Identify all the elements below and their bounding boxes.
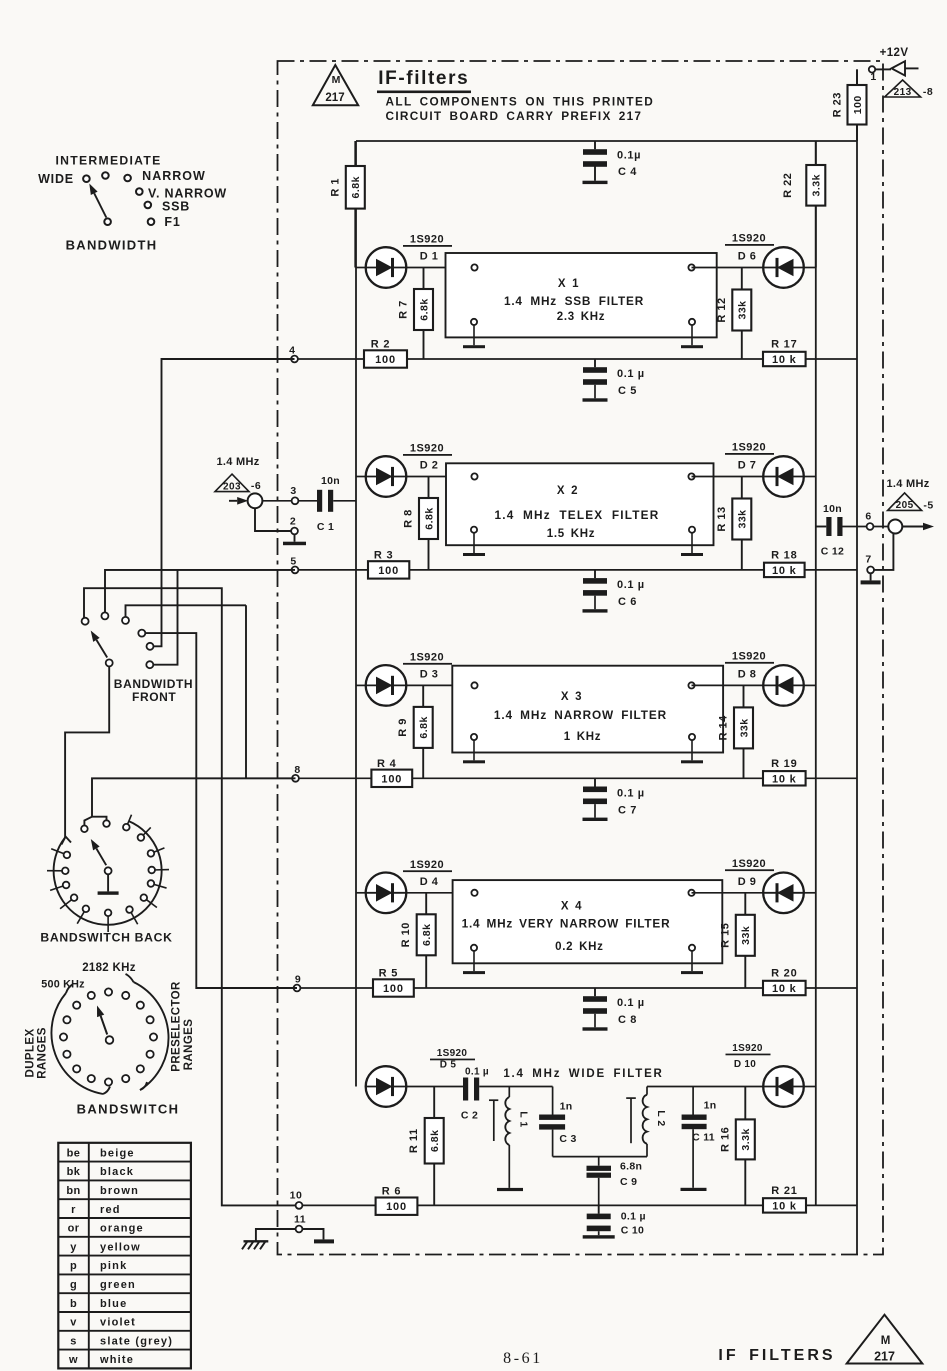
svg-text:BANDWIDTH: BANDWIDTH bbox=[66, 238, 158, 253]
svg-text:white: white bbox=[99, 1354, 134, 1366]
svg-text:SSB: SSB bbox=[162, 200, 190, 214]
svg-text:C 1: C 1 bbox=[317, 521, 334, 533]
wire pin 8 / contact 3 / bandswitch back strap bbox=[245, 605, 247, 778]
svg-text:BANDWIDTH: BANDWIDTH bbox=[114, 677, 193, 691]
node: printed circuit board 217 outline bbox=[278, 61, 884, 1255]
capacitor C 6 0.1u bbox=[583, 570, 645, 609]
svg-text:R 3: R 3 bbox=[374, 549, 394, 561]
wire D10 to output rail bbox=[804, 1086, 816, 1088]
svg-text:8: 8 bbox=[294, 764, 300, 776]
svg-text:M: M bbox=[332, 74, 341, 86]
svg-text:10 k: 10 k bbox=[772, 565, 797, 577]
svg-text:1.4 MHz NARROW FILTER: 1.4 MHz NARROW FILTER bbox=[494, 708, 667, 722]
svg-text:6.8k: 6.8k bbox=[423, 507, 435, 529]
capacitor C 7 0.1u bbox=[583, 778, 645, 817]
svg-text:IF FILTERS: IF FILTERS bbox=[718, 1347, 835, 1364]
svg-text:be: be bbox=[67, 1147, 81, 1159]
wire C12 to pin 6 bbox=[843, 526, 889, 528]
svg-text:C 6: C 6 bbox=[618, 596, 637, 608]
svg-text:RANGES: RANGES bbox=[183, 1019, 195, 1071]
ground (C10) bbox=[583, 1235, 615, 1238]
resistor R 12 33k bbox=[741, 268, 743, 360]
svg-text:p: p bbox=[70, 1260, 77, 1272]
svg-text:D 2: D 2 bbox=[420, 460, 439, 472]
svg-text:X 4: X 4 bbox=[561, 901, 582, 913]
svg-text:blue: blue bbox=[100, 1298, 127, 1310]
svg-text:11: 11 bbox=[294, 1214, 306, 1226]
wire diode to filter input bbox=[406, 892, 474, 894]
wire strap to back contacts A B bbox=[84, 817, 92, 826]
wire diode to output rail bbox=[804, 476, 816, 478]
svg-text:C 3: C 3 bbox=[559, 1133, 576, 1145]
svg-text:9: 9 bbox=[295, 974, 301, 986]
resistor R6 100 bbox=[376, 1198, 418, 1215]
svg-text:0.1 µ: 0.1 µ bbox=[465, 1067, 489, 1078]
svg-text:F1: F1 bbox=[164, 215, 180, 229]
svg-text:6.8k: 6.8k bbox=[421, 924, 433, 946]
wire anode D 3 bbox=[356, 684, 366, 686]
node pin 4 bbox=[289, 345, 298, 363]
svg-text:red: red bbox=[100, 1204, 121, 1216]
wire pin 10 to bandwidth front contact 1 bbox=[84, 588, 299, 1205]
svg-text:M: M bbox=[881, 1335, 891, 1347]
svg-text:C 8: C 8 bbox=[618, 1014, 637, 1026]
svg-text:R 17: R 17 bbox=[771, 339, 797, 351]
switch S3 BANDSWITCH bbox=[25, 962, 196, 1117]
svg-text:WIDE: WIDE bbox=[38, 172, 74, 186]
svg-text:R 23: R 23 bbox=[832, 92, 844, 117]
svg-text:C 5: C 5 bbox=[618, 385, 637, 397]
svg-text:6.8k: 6.8k bbox=[429, 1130, 441, 1152]
svg-text:1S920: 1S920 bbox=[410, 859, 444, 871]
switch S2 BANDSWITCH BACK bbox=[40, 815, 172, 945]
svg-text:RANGES: RANGES bbox=[37, 1027, 49, 1079]
resistor R 20 10k bbox=[763, 981, 806, 995]
svg-text:R 14: R 14 bbox=[718, 715, 730, 741]
svg-text:R 19: R 19 bbox=[771, 758, 797, 770]
connector 1.4MHz input from 203-6 bbox=[215, 456, 262, 508]
svg-text:R 18: R 18 bbox=[771, 549, 797, 561]
svg-text:1S920: 1S920 bbox=[732, 233, 766, 245]
svg-text:R 11: R 11 bbox=[408, 1128, 420, 1153]
inductor L2 bbox=[626, 1087, 667, 1157]
wire stage rail pin 8 bbox=[92, 777, 857, 779]
svg-text:1S920: 1S920 bbox=[410, 234, 444, 246]
svg-text:DUPLEX: DUPLEX bbox=[25, 1028, 37, 1077]
wire diode output rail (vertical) bbox=[815, 141, 817, 1205]
node pin 3 bbox=[290, 485, 298, 504]
diode D5 1S920 bbox=[366, 1048, 475, 1107]
svg-text:D 4: D 4 bbox=[420, 876, 439, 888]
svg-text:1.4 MHz WIDE FILTER: 1.4 MHz WIDE FILTER bbox=[503, 1068, 663, 1080]
svg-text:INTERMEDIATE: INTERMEDIATE bbox=[55, 154, 161, 168]
ground (C4) bbox=[583, 181, 608, 184]
wire +12V right rail to bottom bbox=[856, 69, 858, 1254]
wire diode to filter input bbox=[406, 476, 474, 478]
svg-text:violet: violet bbox=[100, 1317, 136, 1329]
ground (L1) bbox=[497, 1188, 523, 1191]
svg-text:10n: 10n bbox=[321, 475, 340, 487]
svg-text:10: 10 bbox=[290, 1190, 303, 1202]
node pin 10 bbox=[290, 1190, 303, 1209]
svg-text:10 k: 10 k bbox=[772, 773, 797, 785]
wire pin 4 to bandwidth front contact 5 bbox=[150, 359, 295, 646]
ground (C 8) bbox=[583, 1027, 608, 1030]
svg-text:C 2: C 2 bbox=[461, 1110, 478, 1122]
svg-text:D 10: D 10 bbox=[734, 1059, 756, 1070]
svg-text:D 8: D 8 bbox=[738, 668, 757, 680]
svg-text:D 1: D 1 bbox=[420, 251, 439, 263]
svg-text:1S920: 1S920 bbox=[410, 443, 444, 455]
svg-text:R 2: R 2 bbox=[371, 339, 391, 351]
svg-text:bk: bk bbox=[67, 1166, 81, 1178]
wire C2 to C3 corner bbox=[479, 1086, 552, 1088]
capacitor C 5 0.1u bbox=[583, 359, 645, 398]
resistor R23 bbox=[856, 69, 858, 141]
wire diode to output rail bbox=[804, 892, 816, 894]
capacitor C1 10n bbox=[317, 475, 340, 533]
svg-text:D 5: D 5 bbox=[440, 1060, 457, 1071]
capacitor C2 0.1u bbox=[461, 1067, 489, 1122]
ground (pin 11 right) bbox=[314, 1239, 334, 1243]
diode D10 1S920 bbox=[726, 1043, 804, 1107]
node pin 2 bbox=[290, 516, 298, 535]
diode D 6 1S920 bbox=[725, 233, 804, 288]
svg-text:L 2: L 2 bbox=[655, 1110, 667, 1126]
svg-text:0.1 µ: 0.1 µ bbox=[617, 997, 645, 1009]
svg-text:0.1µ: 0.1µ bbox=[617, 150, 641, 162]
wire bandwidth front contact 6 bbox=[150, 570, 178, 665]
table: wire colour code bbox=[58, 1143, 191, 1369]
svg-text:1.4 MHz TELEX FILTER: 1.4 MHz TELEX FILTER bbox=[495, 508, 660, 522]
svg-text:w: w bbox=[68, 1354, 78, 1366]
resistor R 2 100 bbox=[364, 350, 407, 367]
svg-text:100: 100 bbox=[383, 983, 404, 995]
node pin 1 bbox=[869, 66, 891, 83]
svg-text:R 21: R 21 bbox=[771, 1185, 797, 1197]
svg-text:R 13: R 13 bbox=[716, 506, 728, 531]
connector arrow from 213-8 bbox=[885, 61, 934, 98]
svg-text:0.1 µ: 0.1 µ bbox=[617, 368, 645, 380]
node pin 9 bbox=[294, 974, 302, 992]
wire stage rail pin 9 bbox=[196, 987, 857, 989]
svg-text:yellow: yellow bbox=[100, 1241, 141, 1253]
svg-text:D 9: D 9 bbox=[738, 876, 757, 888]
ground (filter left) bbox=[463, 760, 485, 763]
resistor R 14 33k bbox=[743, 685, 745, 778]
svg-text:D 3: D 3 bbox=[420, 668, 439, 680]
svg-text:y: y bbox=[70, 1241, 77, 1253]
svg-text:C 10: C 10 bbox=[621, 1225, 644, 1237]
node pin 11 bbox=[294, 1214, 306, 1233]
resistor R 18 10k bbox=[764, 563, 805, 577]
svg-text:6.8k: 6.8k bbox=[350, 176, 362, 198]
svg-text:1S920: 1S920 bbox=[410, 651, 444, 663]
wire anode D 1 bbox=[356, 267, 366, 269]
svg-text:1.4 MHz: 1.4 MHz bbox=[216, 456, 259, 468]
diode D 1 1S920 bbox=[366, 234, 452, 288]
svg-text:X 2: X 2 bbox=[557, 485, 578, 497]
wire stage rail pin 4 bbox=[162, 358, 858, 360]
node pin 5 bbox=[290, 555, 298, 573]
svg-text:1S920: 1S920 bbox=[437, 1048, 468, 1059]
svg-text:0.1 µ: 0.1 µ bbox=[617, 579, 645, 591]
ground (filter right) bbox=[681, 345, 703, 348]
wire filter output to diode bbox=[692, 476, 764, 478]
svg-text:1.4 MHz SSB FILTER: 1.4 MHz SSB FILTER bbox=[504, 294, 644, 308]
wire diode to output rail bbox=[804, 684, 816, 686]
svg-text:1S920: 1S920 bbox=[732, 1043, 763, 1054]
wire diode to filter input bbox=[406, 684, 474, 686]
svg-text:R 10: R 10 bbox=[400, 922, 412, 947]
wire connector to pin 3 bbox=[262, 500, 317, 502]
module symbol M 217 (footer) bbox=[847, 1315, 923, 1364]
svg-text:10 k: 10 k bbox=[772, 1200, 797, 1212]
svg-text:1n: 1n bbox=[560, 1101, 573, 1113]
svg-text:pink: pink bbox=[100, 1260, 127, 1272]
resistor R16 3.3k bbox=[744, 1087, 746, 1206]
svg-text:orange: orange bbox=[100, 1223, 144, 1235]
capacitor C11 1n bbox=[682, 1087, 717, 1188]
capacitor C3 1n bbox=[539, 1087, 577, 1157]
svg-text:NARROW: NARROW bbox=[142, 169, 206, 183]
wire diode to filter input bbox=[406, 267, 474, 269]
svg-text:5: 5 bbox=[290, 555, 296, 567]
resistor R 13 33k bbox=[741, 477, 743, 570]
svg-text:10n: 10n bbox=[823, 503, 842, 515]
svg-text:3.3k: 3.3k bbox=[740, 1128, 752, 1150]
ground (pin 7) bbox=[861, 573, 881, 584]
svg-text:b: b bbox=[70, 1298, 77, 1310]
switch BANDWIDTH position legend bbox=[38, 154, 227, 253]
svg-text:slate (grey): slate (grey) bbox=[100, 1335, 173, 1347]
wire filter output to diode bbox=[692, 267, 764, 269]
wire input rail (left vertical) bbox=[355, 141, 357, 1087]
svg-text:1.4 MHz: 1.4 MHz bbox=[886, 478, 929, 490]
svg-text:100: 100 bbox=[375, 354, 396, 366]
svg-text:C 9: C 9 bbox=[620, 1176, 637, 1188]
inductor L1 bbox=[489, 1087, 530, 1188]
node pin 8 bbox=[292, 764, 301, 782]
svg-text:R 22: R 22 bbox=[782, 173, 794, 198]
svg-text:or: or bbox=[68, 1223, 80, 1235]
svg-text:4: 4 bbox=[289, 345, 295, 357]
crystal filter X1 bbox=[446, 253, 717, 345]
title IF-filters bbox=[377, 68, 471, 93]
resistor R11 6.8k bbox=[433, 1087, 435, 1206]
svg-text:bn: bn bbox=[66, 1185, 80, 1197]
svg-text:1: 1 bbox=[870, 71, 876, 83]
svg-text:6: 6 bbox=[865, 511, 871, 523]
svg-text:X 3: X 3 bbox=[561, 691, 582, 703]
svg-text:2.3 KHz: 2.3 KHz bbox=[557, 311, 605, 323]
resistor R1 bbox=[354, 141, 356, 268]
wire filter output to diode bbox=[692, 684, 764, 686]
diode D 2 1S920 bbox=[366, 443, 452, 497]
wire pin 11 bbox=[256, 1229, 296, 1241]
ground (filter right) bbox=[681, 971, 703, 974]
connector 1.4MHz output to 205-5 bbox=[886, 478, 934, 534]
crystal filter X4 bbox=[453, 880, 723, 971]
svg-text:2: 2 bbox=[290, 516, 296, 528]
svg-text:1.4 MHz VERY NARROW FILTER: 1.4 MHz VERY NARROW FILTER bbox=[462, 917, 671, 931]
svg-text:g: g bbox=[70, 1279, 77, 1291]
svg-text:8-61: 8-61 bbox=[503, 1350, 543, 1367]
svg-text:1 KHz: 1 KHz bbox=[564, 731, 601, 743]
svg-text:33k: 33k bbox=[737, 300, 749, 319]
svg-text:217: 217 bbox=[874, 1350, 895, 1364]
svg-text:6.8n: 6.8n bbox=[620, 1161, 642, 1173]
resistor R 5 100 bbox=[373, 979, 414, 996]
capacitor C9 6.8n bbox=[587, 1157, 643, 1206]
diode D 7 1S920 bbox=[725, 442, 804, 497]
svg-text:green: green bbox=[100, 1279, 136, 1291]
svg-text:203: 203 bbox=[223, 481, 241, 492]
svg-text:R 4: R 4 bbox=[377, 758, 397, 770]
wire L2 top to D10 bbox=[647, 1086, 763, 1088]
svg-text:1.5 KHz: 1.5 KHz bbox=[547, 528, 595, 540]
svg-text:FRONT: FRONT bbox=[132, 690, 176, 704]
svg-text:PRESELECTOR: PRESELECTOR bbox=[171, 981, 183, 1072]
svg-text:C 4: C 4 bbox=[618, 166, 637, 178]
svg-text:R 16: R 16 bbox=[719, 1127, 731, 1152]
svg-text:BANDSWITCH: BANDSWITCH bbox=[77, 1102, 180, 1117]
node pin 6 bbox=[865, 511, 873, 530]
wire filter output to diode bbox=[692, 892, 764, 894]
svg-text:black: black bbox=[100, 1166, 134, 1178]
svg-text:100: 100 bbox=[381, 773, 402, 785]
svg-text:R 1: R 1 bbox=[329, 178, 341, 197]
wire anode D 4 bbox=[356, 892, 366, 894]
capacitor C4 0.1u bbox=[583, 141, 641, 181]
ground (filter right) bbox=[681, 553, 703, 556]
wire +12V top rail bbox=[356, 140, 857, 142]
svg-text:33k: 33k bbox=[738, 718, 750, 737]
svg-text:6.8k: 6.8k bbox=[418, 298, 430, 320]
svg-text:R 6: R 6 bbox=[382, 1186, 402, 1198]
resistor R 8 6.8k bbox=[428, 477, 430, 570]
resistor R 9 6.8k bbox=[422, 685, 424, 778]
svg-text:205: 205 bbox=[896, 500, 914, 511]
svg-text:1S920: 1S920 bbox=[732, 858, 766, 870]
svg-text:C 12: C 12 bbox=[821, 546, 844, 558]
svg-text:s: s bbox=[70, 1335, 77, 1347]
wire stage rail pin 10 bbox=[296, 1204, 857, 1206]
svg-text:D 6: D 6 bbox=[738, 251, 757, 263]
resistor R 4 100 bbox=[371, 770, 412, 787]
svg-text:10 k: 10 k bbox=[772, 983, 797, 995]
svg-text:IF-filters: IF-filters bbox=[378, 68, 469, 89]
svg-text:100: 100 bbox=[386, 1201, 407, 1213]
resistor R 17 10k bbox=[763, 352, 806, 366]
note: all components carry prefix 217 bbox=[386, 95, 655, 124]
resistor R22 bbox=[815, 141, 817, 268]
wire connector shield to pin 2 bbox=[255, 508, 291, 531]
svg-text:C 11: C 11 bbox=[692, 1132, 715, 1144]
wire bandwidth front wiper to bandswitch back rotor bbox=[65, 666, 109, 837]
ground (filter left) bbox=[463, 553, 485, 556]
capacitor C 8 0.1u bbox=[583, 988, 645, 1027]
wire D5 to C2 bbox=[406, 1086, 463, 1088]
resistor R 7 6.8k bbox=[423, 268, 425, 360]
wire tank bottom link bbox=[553, 1156, 647, 1158]
svg-text:BANDSWITCH BACK: BANDSWITCH BACK bbox=[40, 931, 172, 945]
svg-text:L 1: L 1 bbox=[518, 1111, 530, 1127]
svg-text:beige: beige bbox=[100, 1147, 135, 1159]
diode D 8 1S920 bbox=[725, 650, 804, 705]
svg-text:brown: brown bbox=[100, 1185, 139, 1197]
svg-text:33k: 33k bbox=[737, 509, 749, 528]
resistor R21 10k bbox=[763, 1198, 806, 1212]
capacitor C12 10n bbox=[816, 503, 844, 558]
svg-text:0.1 µ: 0.1 µ bbox=[617, 787, 645, 799]
svg-text:R 12: R 12 bbox=[716, 297, 728, 322]
module symbol M 217 (top) bbox=[313, 65, 358, 105]
ground (C 5) bbox=[583, 398, 608, 401]
wire diode to output rail bbox=[804, 267, 816, 269]
svg-text:500 KHz: 500 KHz bbox=[41, 979, 85, 991]
svg-text:-8: -8 bbox=[923, 86, 933, 98]
diode D 3 1S920 bbox=[366, 651, 452, 705]
diode D 4 1S920 bbox=[366, 859, 452, 913]
svg-text:v: v bbox=[70, 1317, 77, 1329]
svg-text:R 9: R 9 bbox=[397, 718, 409, 737]
svg-text:100: 100 bbox=[852, 95, 864, 114]
capacitor C10 0.1u bbox=[587, 1205, 646, 1236]
resistor R 3 100 bbox=[368, 561, 409, 578]
ground (chassis, hatched) bbox=[242, 1241, 268, 1249]
ground (filter left) bbox=[463, 345, 485, 348]
crystal filter X3 bbox=[452, 666, 723, 761]
svg-text:0.1 µ: 0.1 µ bbox=[621, 1211, 646, 1223]
svg-text:10 k: 10 k bbox=[772, 354, 797, 366]
svg-text:217: 217 bbox=[325, 92, 344, 104]
ground (filter left) bbox=[463, 971, 485, 974]
svg-text:D 7: D 7 bbox=[738, 460, 757, 472]
svg-text:213: 213 bbox=[894, 87, 912, 98]
svg-text:3: 3 bbox=[290, 485, 296, 497]
svg-text:-5: -5 bbox=[923, 500, 933, 512]
node pin 7 bbox=[865, 554, 874, 574]
wire C1 to rail bbox=[333, 500, 356, 502]
ground (C11) bbox=[681, 1188, 707, 1191]
wire anode D 2 bbox=[356, 476, 366, 478]
svg-text:R 20: R 20 bbox=[771, 968, 797, 980]
svg-text:X 1: X 1 bbox=[558, 278, 579, 290]
svg-text:r: r bbox=[71, 1204, 76, 1216]
resistor R 19 10k bbox=[763, 771, 806, 785]
switch S1a BANDWIDTH FRONT bbox=[82, 612, 194, 704]
svg-text:ALL COMPONENTS ON THIS PRINTED: ALL COMPONENTS ON THIS PRINTED bbox=[386, 95, 655, 109]
svg-text:33k: 33k bbox=[740, 926, 752, 945]
wire stage rail pin 5 bbox=[105, 569, 857, 571]
ground (C 7) bbox=[583, 818, 608, 821]
ground (filter right) bbox=[681, 760, 703, 763]
svg-text:6.8k: 6.8k bbox=[418, 716, 430, 738]
svg-text:R 15: R 15 bbox=[719, 923, 731, 948]
svg-text:1S920: 1S920 bbox=[732, 650, 766, 662]
svg-text:CIRCUIT BOARD CARRY PREFIX 217: CIRCUIT BOARD CARRY PREFIX 217 bbox=[386, 109, 643, 123]
svg-text:1n: 1n bbox=[704, 1100, 717, 1112]
svg-text:+12V: +12V bbox=[880, 47, 909, 59]
svg-text:3.3k: 3.3k bbox=[811, 174, 823, 196]
wire pin 5 to bandwidth front contact 2 bbox=[105, 570, 295, 613]
resistor R 15 33k bbox=[744, 893, 746, 988]
wire pin 7 to connector shield bbox=[874, 534, 893, 570]
resistor R 10 6.8k bbox=[425, 893, 427, 988]
svg-text:1S920: 1S920 bbox=[732, 442, 766, 454]
svg-text:C 7: C 7 bbox=[618, 804, 637, 816]
